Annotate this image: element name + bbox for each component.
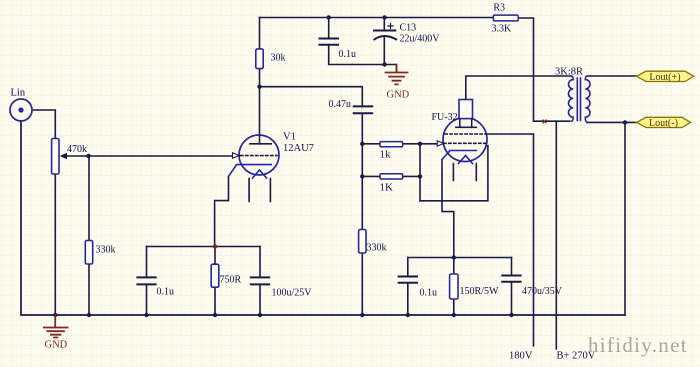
svg-text:100u/25V: 100u/25V bbox=[272, 287, 313, 298]
tube FU-32 cathode bbox=[442, 151, 476, 160]
svg-text:470u/35V: 470u/35V bbox=[522, 286, 563, 297]
tube FU-32 screen grid bbox=[445, 133, 486, 135]
svg-text:750R: 750R bbox=[220, 274, 242, 285]
svg-text:30k: 30k bbox=[271, 53, 286, 64]
wire 1k to FU-32 grid bbox=[403, 143, 438, 145]
wire 470u cap leads bbox=[511, 258, 513, 316]
capacitor C13 electrolytic bbox=[374, 31, 396, 40]
label GND bottom bbox=[45, 340, 68, 351]
label 180V bbox=[509, 351, 533, 362]
label 12AU7 bbox=[283, 143, 314, 154]
node rail 0.1u junction bbox=[327, 15, 331, 19]
label B+ 270V bbox=[557, 351, 596, 362]
label FU-32 bbox=[432, 112, 458, 123]
ground bottom GND symbol bbox=[44, 315, 68, 338]
label C13 plus bbox=[388, 24, 393, 29]
wire Lin jack to volume pot bbox=[33, 110, 56, 139]
tube FU-32 grid arrow bbox=[437, 141, 444, 146]
svg-text:0.1u: 0.1u bbox=[339, 49, 357, 60]
label 0.1u FU-32 cathode bbox=[420, 287, 438, 298]
tube V1 cathode bbox=[229, 165, 272, 177]
tube FU-32 control grid bbox=[444, 142, 487, 144]
wire C13 leads bbox=[384, 18, 396, 72]
node grid junction bottom bbox=[418, 174, 422, 178]
resistor 150R/5W cathode bbox=[450, 274, 458, 299]
tube FU-32 heater pins bbox=[453, 164, 476, 181]
potentiometer wiper arrow bbox=[60, 153, 67, 159]
capacitor 0.1u V1 cathode bbox=[137, 277, 155, 284]
label 750R bbox=[220, 274, 242, 285]
wire screen 180V drop bbox=[486, 134, 533, 346]
svg-text:180V: 180V bbox=[509, 351, 533, 362]
wire R3 right to B+ node bbox=[518, 18, 533, 121]
tube V1 envelope bbox=[239, 135, 279, 175]
tube FU-32 envelope bbox=[443, 118, 487, 162]
svg-text:Lin: Lin bbox=[11, 88, 26, 99]
label 330k bbox=[96, 245, 116, 256]
svg-text:C13: C13 bbox=[400, 23, 417, 34]
svg-text:3K:8R: 3K:8R bbox=[555, 67, 583, 78]
capacitor 0.47u coupling bbox=[354, 106, 373, 113]
label 100u/25V bbox=[272, 287, 313, 298]
wire plate node to 0.47u bbox=[260, 87, 363, 107]
wire plate FU-32 to primary top bbox=[466, 76, 572, 100]
node grid junction top bbox=[418, 142, 422, 146]
tube V1 heater pins bbox=[249, 179, 270, 202]
wire secondary top to Lout(+) bbox=[587, 75, 637, 77]
label 22u/400V bbox=[400, 34, 441, 45]
wire V1 cathode staircase bbox=[215, 176, 229, 246]
label 150R/5W bbox=[460, 286, 499, 297]
label 3K:8R bbox=[555, 67, 583, 78]
tube FU-32 plate bbox=[456, 126, 476, 128]
wire beam plate horizontal bbox=[420, 146, 488, 201]
svg-text:3.3K: 3.3K bbox=[492, 23, 513, 34]
tube V1 plate bbox=[250, 143, 271, 145]
transformer T1 core bbox=[577, 78, 580, 121]
svg-text:Lout(-): Lout(-) bbox=[649, 118, 678, 129]
svg-text:1K: 1K bbox=[380, 181, 394, 193]
svg-text:330k: 330k bbox=[96, 245, 116, 256]
label 0.47u bbox=[329, 99, 352, 110]
label C13 bbox=[400, 23, 417, 34]
resistor 750R cathode bbox=[211, 264, 219, 287]
wire 1K right to grid column bbox=[403, 175, 420, 177]
label 330k divider bbox=[367, 243, 387, 254]
resistor 330k grid leak bbox=[85, 241, 92, 265]
wire 0.47u to 1k row bbox=[362, 113, 380, 144]
resistor 330k divider bbox=[359, 230, 366, 254]
resistor 30k plate load bbox=[256, 49, 263, 69]
svg-text:0.1u: 0.1u bbox=[420, 287, 438, 298]
svg-text:Lout(+): Lout(+) bbox=[649, 72, 680, 83]
node plate junction bbox=[257, 85, 261, 89]
wire ground rail bbox=[21, 121, 625, 315]
wire 0.1u cap leads right bbox=[407, 258, 409, 316]
node cathode junction V1 bbox=[213, 244, 217, 248]
svg-text:1k: 1k bbox=[380, 148, 392, 160]
wire 0.1u decoupling leads bbox=[329, 18, 385, 65]
ground top GND symbol bbox=[386, 65, 408, 85]
wire grid column down to beam node bbox=[419, 144, 421, 201]
svg-text:R3: R3 bbox=[493, 3, 505, 14]
potentiometer 470k body bbox=[52, 139, 59, 175]
port Lout(+) bbox=[637, 71, 694, 83]
capacitor 0.1u FU-32 cathode bbox=[399, 277, 417, 283]
node B+ junction bbox=[543, 120, 546, 123]
wire pot bottom to rail bbox=[54, 173, 56, 315]
tube FU-32 filament bbox=[459, 156, 473, 164]
svg-text:hifidiy.net: hifidiy.net bbox=[588, 333, 688, 357]
label 470u/35V bbox=[522, 286, 563, 297]
wire 30k to plate of V1 bbox=[259, 18, 261, 144]
capacitor 100u/25V bbox=[251, 277, 269, 284]
wire down to 1K row bbox=[362, 144, 380, 177]
tube V1 grid bbox=[241, 155, 277, 157]
wire FU-32 cathode step bbox=[442, 160, 454, 275]
node C13 bottom junction bbox=[382, 62, 386, 66]
label R3 bbox=[493, 3, 505, 14]
resistor 1K grid stopper bbox=[380, 174, 403, 179]
wire V1 cathode RC bus bbox=[147, 246, 261, 248]
transformer T1 primary bbox=[569, 76, 574, 121]
watermark hifidiy.net bbox=[588, 333, 688, 357]
wire 0.1u cathode cap leads bbox=[146, 247, 148, 316]
wire B+ node to transformer primary bbox=[534, 120, 570, 122]
label V1 bbox=[283, 132, 296, 143]
svg-text:22u/400V: 22u/400V bbox=[400, 34, 441, 45]
label 30k bbox=[271, 53, 286, 64]
wire top rail B+ feed bbox=[260, 17, 494, 19]
wire 330k AC-balance leads bbox=[361, 176, 363, 315]
wire 330k grid leak leads bbox=[88, 156, 90, 315]
wire secondary bottom to Lout(-) bbox=[587, 121, 637, 123]
svg-text:0.1u: 0.1u bbox=[157, 287, 175, 298]
svg-text:0.47u: 0.47u bbox=[329, 99, 352, 110]
resistor R3 bbox=[493, 15, 518, 21]
tube V1 filament bbox=[253, 170, 267, 178]
port Lout(-) bbox=[637, 117, 691, 129]
svg-text:150R/5W: 150R/5W bbox=[460, 286, 499, 297]
wire 150R bottom lead bbox=[453, 299, 455, 315]
tube FU-32 anode cap bbox=[459, 100, 473, 128]
svg-text:GND: GND bbox=[45, 340, 68, 351]
node 1K left junction bbox=[360, 174, 364, 178]
wire FU-32 cathode RC bus bbox=[408, 257, 512, 259]
label Lin bbox=[11, 88, 26, 99]
node 0.47u/1k junction bbox=[360, 142, 364, 146]
svg-text:12AU7: 12AU7 bbox=[283, 143, 314, 154]
capacitor 0.1u decoupling bbox=[320, 39, 339, 45]
wire wiper to V1 grid bbox=[65, 155, 233, 157]
label 1K bbox=[380, 181, 394, 193]
transformer T1 secondary bbox=[585, 76, 590, 122]
label 0.1u V1 cathode bbox=[157, 287, 175, 298]
svg-text:GND: GND bbox=[387, 90, 410, 101]
svg-text:FU-32: FU-32 bbox=[432, 112, 458, 123]
label 1k bbox=[380, 148, 392, 160]
label 0.1u bbox=[339, 49, 357, 60]
wire B+ supply drop bbox=[555, 121, 557, 349]
node rail junctions bbox=[53, 313, 514, 317]
wire Lout(-) to ground rail bbox=[624, 122, 626, 315]
svg-text:330k: 330k bbox=[367, 243, 387, 254]
node cathode RC junction bbox=[452, 255, 456, 259]
svg-text:V1: V1 bbox=[283, 132, 296, 143]
label 470k bbox=[67, 144, 87, 155]
resistor 1k grid stopper bbox=[380, 142, 403, 147]
tube V1 grid arrow bbox=[233, 153, 240, 158]
label 3.3K bbox=[492, 23, 513, 34]
label GND top bbox=[387, 90, 410, 101]
node rail C13 junction bbox=[382, 15, 386, 19]
node Lout(-) junction bbox=[623, 120, 627, 124]
wire 750R leads bbox=[214, 247, 216, 316]
wire 100u cap leads bbox=[259, 247, 261, 316]
capacitor 470u/35V bbox=[502, 276, 520, 282]
connector Lin input jack bbox=[10, 99, 32, 121]
svg-text:470k: 470k bbox=[67, 144, 87, 155]
node wiper junction bbox=[86, 154, 90, 158]
